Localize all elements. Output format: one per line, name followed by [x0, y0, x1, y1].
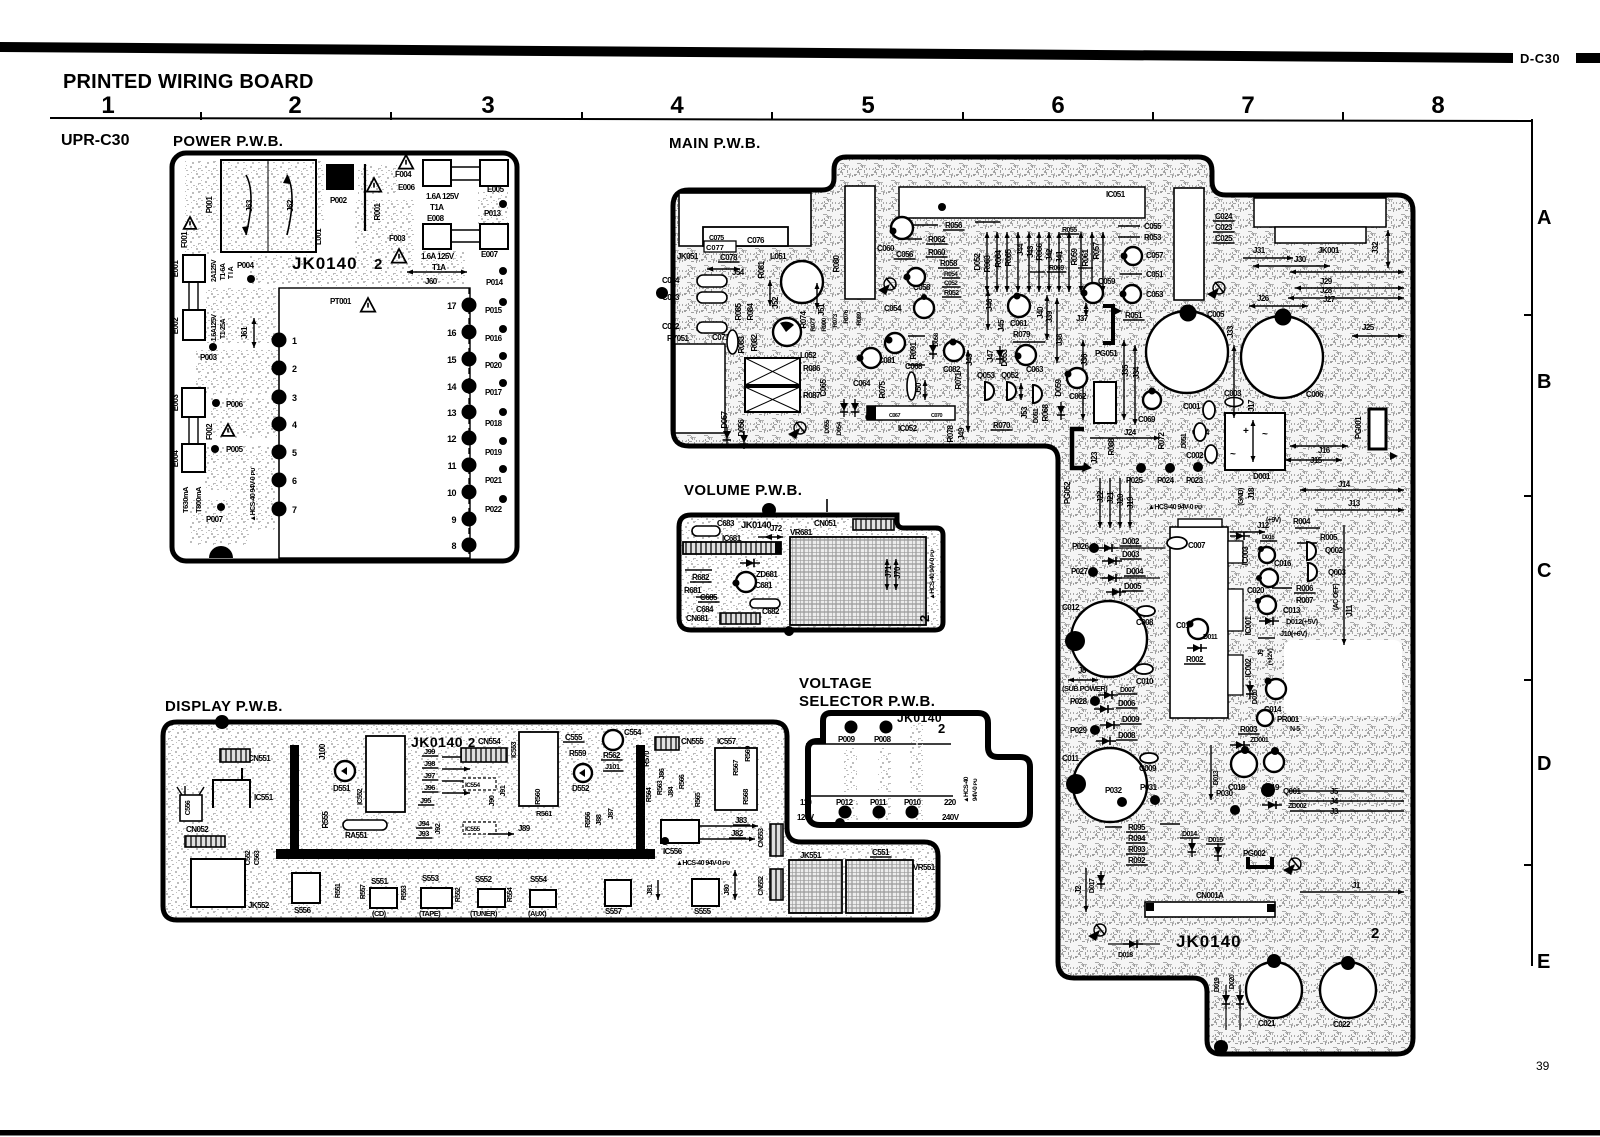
pad C018	[1241, 746, 1249, 754]
svg-text:J81: J81	[645, 884, 654, 895]
IC681	[683, 542, 781, 554]
J63 arrow	[246, 175, 251, 235]
pad C082	[950, 339, 957, 346]
svg-text:P004: P004	[237, 261, 255, 270]
pin 7 pad	[272, 502, 287, 517]
svg-text:R071: R071	[954, 371, 963, 389]
svg-text:VOLTAGE: VOLTAGE	[799, 675, 872, 692]
svg-text:E004: E004	[171, 450, 180, 468]
svg-text:C023: C023	[1215, 223, 1233, 232]
svg-text:ZD001: ZD001	[1250, 737, 1269, 744]
svg-text:J29: J29	[1320, 277, 1333, 286]
wire	[1290, 800, 1404, 802]
ruler tick	[962, 112, 964, 120]
svg-text:D003: D003	[1122, 550, 1140, 559]
capacitor C017	[1260, 569, 1278, 587]
svg-text:C552: C552	[245, 850, 252, 865]
jumper J27	[1288, 296, 1404, 301]
svg-text:C065: C065	[819, 378, 828, 396]
svg-text:R062: R062	[928, 235, 946, 244]
trace texture	[355, 200, 415, 270]
svg-text:P014: P014	[486, 278, 504, 287]
svg-text:C055: C055	[1144, 222, 1162, 231]
pin 14 pad	[462, 379, 477, 394]
svg-text:PG001: PG001	[1354, 416, 1363, 439]
svg-text:4: 4	[670, 92, 684, 119]
svg-text:IC003: IC003	[1241, 546, 1250, 566]
capacitor C001	[1203, 401, 1215, 419]
svg-text:J82: J82	[731, 829, 744, 838]
trace texture	[845, 798, 858, 820]
wire	[1118, 236, 1140, 238]
svg-text:▲HCS-40 94V-0 ᴘᴜ: ▲HCS-40 94V-0 ᴘᴜ	[250, 468, 257, 522]
svg-text:120V: 120V	[797, 813, 815, 822]
fuse E003	[182, 388, 205, 417]
svg-text:IC052: IC052	[898, 424, 918, 433]
capacitor C072	[697, 322, 727, 333]
warning mark PT001	[361, 298, 375, 312]
svg-text:Q002: Q002	[1325, 546, 1343, 555]
capacitor C021	[1246, 962, 1302, 1018]
svg-text:R068: R068	[1041, 403, 1050, 421]
svg-text:J92: J92	[433, 823, 442, 834]
svg-text:IC002: IC002	[1244, 658, 1253, 678]
jumper J46	[986, 290, 991, 330]
wire	[1160, 823, 1180, 825]
svg-text:P030: P030	[1216, 789, 1234, 798]
warning mark F003	[392, 249, 406, 263]
diode D056	[740, 431, 748, 449]
pin 5 pad	[272, 445, 287, 460]
capacitor C057	[1124, 247, 1142, 265]
wire	[685, 569, 712, 571]
inductor L051 body	[781, 261, 823, 303]
capacitor C007	[1167, 537, 1187, 549]
resistor lead	[1057, 232, 1062, 292]
svg-text:D001: D001	[1253, 472, 1271, 481]
pad P031	[1150, 795, 1160, 805]
capacitor C069	[1143, 391, 1161, 409]
svg-text:IC557: IC557	[717, 737, 737, 746]
capacitor C018	[1231, 751, 1257, 777]
trace texture	[415, 300, 467, 328]
capacitor C064	[861, 348, 881, 368]
svg-text:C076: C076	[747, 236, 765, 245]
diode D014	[1188, 839, 1196, 857]
wire	[1290, 810, 1404, 812]
trace texture	[408, 415, 466, 443]
jumper J52	[768, 280, 773, 306]
svg-text:R060: R060	[928, 248, 946, 257]
svg-text:R073: R073	[832, 313, 839, 327]
capacitor C004	[1194, 423, 1206, 441]
capacitor C058	[907, 268, 925, 286]
svg-text:R559: R559	[569, 749, 587, 758]
pin 10 pad	[462, 485, 477, 500]
fuse E006	[423, 160, 451, 186]
transistor Q053	[985, 382, 994, 400]
svg-text:P031: P031	[1140, 783, 1158, 792]
svg-text:J24: J24	[1124, 428, 1137, 437]
svg-text:P022: P022	[485, 505, 503, 514]
svg-text:DISPLAY P.W.B.: DISPLAY P.W.B.	[165, 698, 283, 715]
svg-text:J96: J96	[424, 783, 435, 792]
svg-text:(SUB POWER): (SUB POWER)	[1062, 684, 1108, 693]
svg-text:C078: C078	[720, 253, 738, 262]
capacitor C012	[1071, 601, 1147, 677]
pad C681	[733, 580, 740, 587]
diode D010	[1246, 681, 1254, 699]
svg-text:J87: J87	[606, 808, 615, 819]
bottom rule bar	[0, 1130, 1600, 1136]
svg-text:J27: J27	[1323, 295, 1336, 304]
diode D058	[929, 341, 937, 359]
switch S553	[421, 888, 452, 908]
mounting pad volume top	[762, 503, 776, 517]
svg-text:PG051: PG051	[1095, 349, 1118, 358]
svg-text:R054: R054	[944, 271, 958, 278]
resistor block R086	[745, 358, 800, 385]
jumper J32	[1386, 230, 1391, 268]
svg-text:C053: C053	[1146, 290, 1164, 299]
warning mark F001	[184, 217, 197, 229]
pad P023	[1193, 462, 1203, 472]
trace texture	[250, 255, 310, 285]
svg-text:D002: D002	[1122, 537, 1140, 546]
diode D054	[851, 399, 859, 417]
capacitor C015	[1188, 619, 1208, 639]
svg-text:R556: R556	[583, 812, 592, 828]
wire	[1105, 826, 1122, 828]
svg-text:R056: R056	[945, 221, 963, 230]
pad C081	[886, 337, 893, 344]
resistor lead	[1047, 232, 1052, 292]
jumper J38	[1055, 298, 1060, 363]
connector P002	[326, 164, 354, 190]
svg-text:R569: R569	[743, 746, 752, 762]
pin 6 pad	[272, 473, 287, 488]
svg-text:R082: R082	[750, 333, 759, 351]
svg-text:T1-6A: T1-6A	[220, 263, 227, 280]
svg-text:▲HCS-40: ▲HCS-40	[963, 776, 970, 803]
svg-text:IC553: IC553	[511, 741, 518, 758]
trace texture	[195, 350, 280, 395]
svg-text:C060: C060	[877, 244, 895, 253]
svg-text:J50: J50	[914, 382, 923, 395]
svg-text:8: 8	[1431, 92, 1444, 119]
selector divider bottom	[805, 795, 953, 797]
svg-text:J46: J46	[985, 298, 994, 311]
svg-text:J23: J23	[1090, 451, 1099, 464]
warning mark R001	[367, 178, 381, 192]
svg-text:C056: C056	[896, 250, 914, 259]
svg-text:CN555: CN555	[681, 737, 704, 746]
diode D008	[1096, 737, 1116, 745]
svg-text:R076: R076	[843, 309, 850, 323]
white region bottom right	[1284, 640, 1402, 716]
capacitor C003	[1225, 398, 1243, 407]
svg-text:R564: R564	[646, 787, 653, 802]
svg-text:7: 7	[292, 505, 297, 515]
svg-text:VOLUME P.W.B.: VOLUME P.W.B.	[684, 482, 802, 499]
jumper J8	[1068, 678, 1098, 683]
svg-text:J10(+6V): J10(+6V)	[1280, 629, 1308, 638]
pad P012	[839, 806, 852, 819]
svg-text:10: 10	[447, 488, 456, 498]
svg-text:R088: R088	[1107, 437, 1116, 455]
svg-text:J36: J36	[1080, 353, 1089, 366]
diode R002	[1187, 644, 1207, 652]
capacitor C020	[1258, 596, 1276, 614]
svg-text:R555: R555	[321, 810, 330, 828]
svg-text:(+9V): (+9V)	[1266, 517, 1281, 524]
svg-text:R554: R554	[507, 887, 514, 902]
trace texture	[910, 798, 923, 820]
svg-text:D058: D058	[933, 332, 940, 346]
diode D017	[1097, 871, 1105, 889]
jumper J1	[1300, 890, 1404, 895]
pad C062	[1065, 371, 1072, 378]
svg-text:S556: S556	[294, 906, 312, 915]
svg-text:ZD002: ZD002	[1288, 803, 1307, 810]
svg-text:R095: R095	[1128, 823, 1146, 832]
resistor lead	[1027, 232, 1032, 292]
svg-text:R086: R086	[803, 364, 821, 373]
warning mark F002	[222, 424, 235, 436]
svg-text:D014: D014	[1182, 831, 1197, 838]
svg-text:T800mA: T800mA	[194, 486, 203, 513]
svg-text:P019: P019	[485, 448, 503, 457]
svg-text:D015: D015	[1208, 837, 1223, 844]
RY051 white rect	[675, 344, 725, 433]
diode D018	[1123, 940, 1143, 948]
jumper J81	[656, 880, 661, 900]
jumper J16	[1290, 444, 1348, 449]
jumper J14	[1300, 488, 1404, 493]
trace texture	[412, 388, 468, 416]
IC552	[366, 736, 405, 812]
trace texture	[878, 798, 891, 820]
svg-text:~: ~	[1262, 429, 1268, 440]
svg-text:(AUX): (AUX)	[528, 909, 547, 918]
jumper J34	[1133, 345, 1138, 425]
pad C059	[1081, 290, 1088, 297]
connector PG002	[1248, 857, 1272, 867]
svg-text:D012(+5V): D012(+5V)	[1286, 617, 1319, 626]
svg-text:J9: J9	[1258, 649, 1265, 656]
pad C006	[1275, 309, 1292, 326]
ruler tick	[1342, 112, 1344, 120]
wire	[912, 224, 938, 226]
svg-text:15: 15	[447, 355, 456, 365]
svg-text:D055: D055	[824, 419, 831, 433]
svg-text:2: 2	[1371, 925, 1379, 942]
capacitor C682	[750, 599, 780, 608]
capacitor C074	[697, 275, 727, 287]
pad P025	[1136, 463, 1146, 473]
mounting pad bottom	[1214, 1040, 1228, 1054]
svg-text:(+12V): (+12V)	[1267, 648, 1274, 665]
display window bar right	[636, 745, 645, 851]
POWER board outline	[172, 153, 517, 561]
capacitor C068	[907, 372, 916, 400]
VOLUME board outline	[679, 515, 943, 630]
pad P003	[209, 343, 217, 351]
wire	[975, 221, 1000, 223]
svg-text:8: 8	[452, 541, 457, 551]
capacitor C016	[1259, 547, 1275, 563]
svg-text:RA551: RA551	[345, 831, 368, 840]
svg-text:L001: L001	[314, 228, 323, 245]
IC554 dashed	[463, 778, 496, 790]
svg-text:2A125V: 2A125V	[211, 259, 218, 282]
svg-text:D008: D008	[1118, 731, 1136, 740]
svg-text:R094: R094	[1128, 834, 1146, 843]
wire	[451, 241, 480, 243]
via pad	[938, 203, 946, 211]
wire	[1118, 225, 1140, 227]
svg-text:Q053: Q053	[977, 371, 995, 380]
transformer interior texture	[223, 162, 314, 250]
jumper J80	[733, 870, 738, 900]
svg-text:J11: J11	[1345, 604, 1354, 616]
connector CN681	[720, 613, 760, 624]
svg-text:T1A: T1A	[430, 203, 444, 212]
capacitor C008	[1137, 606, 1155, 616]
warning mark F004	[399, 155, 413, 169]
svg-text:F001: F001	[180, 231, 189, 248]
svg-text:(TUNER): (TUNER)	[470, 909, 498, 918]
svg-text:IC555: IC555	[465, 826, 481, 833]
svg-text:R075: R075	[878, 380, 887, 398]
svg-text:UPR-C30: UPR-C30	[61, 132, 130, 149]
pad C069	[1149, 388, 1156, 395]
pin 1 pad	[272, 333, 287, 348]
pad C005	[1180, 305, 1197, 322]
IC556 body	[661, 820, 699, 843]
svg-text:IC051: IC051	[1106, 190, 1126, 199]
svg-text:J49: J49	[957, 427, 966, 440]
svg-text:C013: C013	[1283, 606, 1301, 615]
pad C054	[921, 294, 927, 300]
svg-text:ZD681: ZD681	[756, 570, 778, 579]
svg-text:F004: F004	[395, 170, 412, 179]
svg-text:D051: D051	[1033, 408, 1040, 423]
svg-text:D011: D011	[1203, 634, 1218, 641]
jumper J2	[1084, 868, 1089, 912]
svg-text:P006: P006	[226, 400, 244, 409]
svg-text:7: 7	[1241, 92, 1254, 119]
svg-text:R055: R055	[1062, 227, 1077, 234]
svg-text:14: 14	[447, 382, 456, 392]
ruler tick	[390, 112, 392, 120]
svg-text:C006: C006	[1306, 390, 1324, 399]
pin 13 pad	[462, 405, 477, 420]
connector PG001	[1369, 409, 1386, 449]
jumper J97	[442, 779, 470, 784]
svg-text:E001: E001	[171, 260, 180, 278]
svg-text:R551: R551	[335, 883, 342, 898]
svg-text:R053: R053	[1144, 233, 1162, 242]
svg-text:R557: R557	[360, 884, 367, 899]
jumper J61	[252, 318, 257, 348]
wire	[908, 335, 925, 337]
svg-text:E: E	[1537, 951, 1550, 973]
svg-text:R566: R566	[679, 774, 686, 789]
svg-text:R552: R552	[455, 887, 462, 902]
svg-text:220: 220	[944, 798, 957, 807]
diode D019	[1222, 991, 1230, 1009]
wire	[1120, 273, 1142, 275]
svg-text:R083: R083	[737, 335, 746, 353]
trace texture	[300, 270, 420, 286]
pad C016	[1258, 546, 1264, 552]
svg-text:4: 4	[292, 420, 297, 430]
pad P011	[873, 806, 886, 819]
trace texture	[210, 398, 278, 438]
svg-text:16: 16	[447, 328, 456, 338]
svg-text:D005: D005	[1124, 582, 1142, 591]
transistor Q052	[1007, 382, 1016, 400]
svg-text:C003: C003	[1224, 389, 1242, 398]
svg-text:1.6A 125V: 1.6A 125V	[426, 192, 460, 201]
svg-text:J45: J45	[997, 319, 1006, 332]
svg-text:D059: D059	[1054, 378, 1063, 396]
jumper J50	[923, 380, 928, 400]
svg-text:CN552: CN552	[758, 876, 765, 896]
svg-text:P023: P023	[1186, 476, 1204, 485]
svg-text:SELECTOR P.W.B.: SELECTOR P.W.B.	[799, 693, 935, 710]
svg-text:PRINTED WIRING BOARD: PRINTED WIRING BOARD	[63, 71, 314, 93]
svg-text:S555: S555	[694, 907, 712, 916]
svg-text:J95: J95	[420, 796, 431, 805]
pin 9 pad	[462, 512, 477, 527]
screw mark top	[878, 278, 896, 295]
jumper J28	[1295, 286, 1404, 291]
svg-text:3: 3	[292, 393, 297, 403]
svg-text:2: 2	[288, 92, 301, 119]
svg-text:T630mA: T630mA	[181, 486, 190, 513]
top rule bar right segment	[1576, 53, 1600, 63]
svg-text:C062: C062	[1069, 392, 1087, 401]
svg-text:IC554: IC554	[465, 782, 481, 789]
svg-text:C054: C054	[884, 304, 902, 313]
display window bar bottom	[276, 849, 655, 859]
svg-text:J90: J90	[487, 795, 496, 806]
svg-text:9: 9	[452, 515, 457, 525]
svg-text:R077: R077	[810, 317, 817, 331]
pad C012	[1065, 631, 1085, 651]
wire	[1239, 985, 1241, 1030]
svg-text:J100: J100	[318, 743, 327, 760]
jumper J70	[894, 559, 899, 590]
jumper J71	[885, 559, 890, 590]
svg-text:2: 2	[292, 364, 297, 374]
svg-text:R051: R051	[1125, 311, 1143, 320]
capacitor C011	[1073, 748, 1147, 822]
pad P024	[1165, 463, 1175, 473]
screw mark left	[788, 422, 806, 439]
svg-text:R003: R003	[1240, 725, 1258, 734]
svg-text:D051: D051	[1181, 433, 1188, 448]
svg-text:C059: C059	[1098, 277, 1116, 286]
pad P020	[499, 352, 507, 360]
switch S557	[605, 880, 631, 906]
fuse E005	[480, 160, 508, 186]
pad C014	[1265, 678, 1272, 685]
diode D005	[1106, 588, 1126, 596]
pot VR681	[790, 537, 926, 625]
